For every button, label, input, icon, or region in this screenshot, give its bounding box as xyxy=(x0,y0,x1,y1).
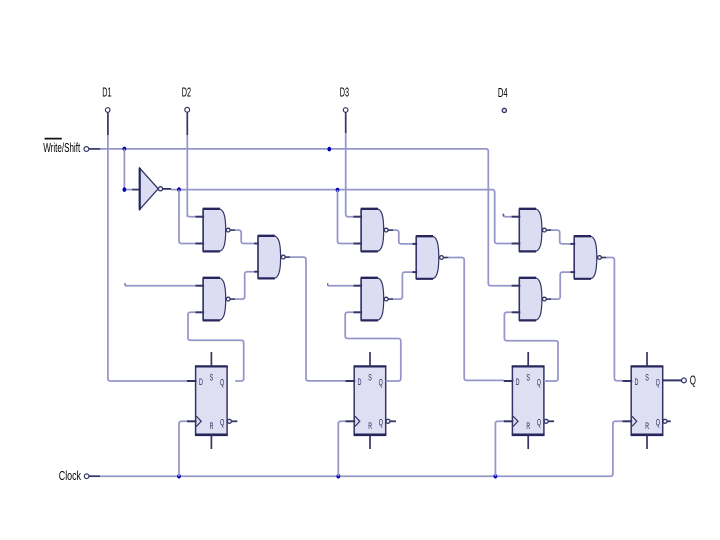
wire C2 output to FF3 D input xyxy=(448,258,503,381)
nand gate B1 xyxy=(195,278,235,321)
wire inverted shift bus to gate A3 bottom input xyxy=(171,190,511,244)
wire FF3 Q to B3 bottom input xyxy=(504,312,558,381)
wire inverted bus to gate A2 bottom input xyxy=(338,190,354,244)
wire B3 output to C3 bottom input xyxy=(551,272,570,299)
svg-text:Q: Q xyxy=(537,378,541,389)
nand gate C1 xyxy=(254,236,290,279)
svg-text:Q: Q xyxy=(656,378,660,389)
input pin D4 xyxy=(498,86,508,113)
wire Write/Shift to inverter input xyxy=(124,149,140,190)
junction clock at FF3 xyxy=(494,474,498,479)
svg-text:Q: Q xyxy=(379,378,383,389)
wire B1 output to C1 bottom input xyxy=(235,272,254,299)
wire C1 output to FF2 D input xyxy=(290,257,345,381)
svg-text:R: R xyxy=(645,421,649,432)
svg-text:R: R xyxy=(210,421,214,432)
wire clock to FF1 clock input xyxy=(179,421,187,476)
nand gate A2 xyxy=(353,209,393,252)
nand gate A1 xyxy=(195,209,235,252)
svg-text:S: S xyxy=(526,373,530,384)
inverter U1 xyxy=(140,168,172,210)
wire B1 top input from write line xyxy=(125,283,195,286)
junction clock at FF2 xyxy=(336,474,340,479)
svg-text:D: D xyxy=(516,377,520,388)
D flip-flop FF3 xyxy=(504,352,554,449)
svg-text:S: S xyxy=(645,373,649,384)
nand gate B3 xyxy=(512,278,552,321)
svg-text:Write/Shift: Write/Shift xyxy=(43,141,80,155)
nand gate C3 xyxy=(570,236,606,279)
wire C3 output to FF4 D input xyxy=(606,258,622,381)
input pin D1 xyxy=(102,86,111,135)
svg-text:Q: Q xyxy=(537,417,541,428)
wire FF1 Q to B1 bottom input xyxy=(188,312,244,381)
svg-text:S: S xyxy=(368,373,372,384)
wire D1 to FF1 D input xyxy=(108,135,187,381)
svg-text:Q: Q xyxy=(220,378,224,389)
svg-text:S: S xyxy=(210,373,214,384)
wire Write/Shift bus to gate B3 top input xyxy=(100,149,512,286)
port Write/Shift xyxy=(43,139,100,156)
svg-text:Q: Q xyxy=(690,374,696,388)
junction clock at FF1 xyxy=(177,474,181,479)
svg-text:R: R xyxy=(526,421,530,432)
wire FF2 Q to B2 bottom input xyxy=(345,312,401,381)
wire B2 top input from write line xyxy=(328,283,354,285)
nand gate B2 xyxy=(353,278,393,321)
wire stub D4 to gate A3 top input xyxy=(503,214,511,217)
port Clock xyxy=(59,469,100,483)
D flip-flop FF1 xyxy=(187,352,237,449)
wire B2 output to C2 bottom input xyxy=(393,272,412,299)
junction at inverter input xyxy=(123,187,127,192)
svg-text:D: D xyxy=(635,377,639,388)
wire clock to FF2 clock input xyxy=(338,421,345,476)
D flip-flop FF2 xyxy=(346,352,396,449)
wire D2 to gate A1 top input xyxy=(187,135,195,217)
nand gate A3 xyxy=(512,209,552,252)
junction inverted bus at gate A2 branch xyxy=(336,188,340,193)
wire A3 output to C3 top input xyxy=(551,230,570,244)
wire clock bus to FF4 clock input xyxy=(100,421,623,476)
svg-text:R: R xyxy=(368,421,372,432)
junction inverted bus at gate A1 branch xyxy=(177,187,181,192)
wire A1 output to C1 top input xyxy=(235,230,254,243)
junction on Write/Shift at D3 column xyxy=(327,147,331,152)
input pin D2 xyxy=(182,86,191,135)
svg-text:Clock: Clock xyxy=(59,469,82,483)
svg-text:Q: Q xyxy=(379,417,383,428)
wire clock to FF3 clock input xyxy=(495,421,503,476)
svg-text:Q: Q xyxy=(656,417,660,428)
svg-text:D4: D4 xyxy=(498,86,508,100)
wire D3 to gate A2 top input xyxy=(346,133,354,217)
svg-text:D2: D2 xyxy=(182,86,191,100)
svg-text:Q: Q xyxy=(220,417,224,428)
svg-text:D: D xyxy=(199,377,203,388)
wire inverted bus to gate A1 bottom input xyxy=(179,190,195,244)
input pin D3 xyxy=(340,86,349,133)
nand gate C2 xyxy=(412,236,448,279)
svg-text:D1: D1 xyxy=(102,86,111,100)
D flip-flop FF4 xyxy=(623,352,671,449)
output pin Q xyxy=(663,374,696,388)
svg-text:D: D xyxy=(358,377,362,388)
junction on Write/Shift at inverter branch xyxy=(123,147,127,152)
wire A2 output to C2 top input xyxy=(393,230,412,244)
svg-text:D3: D3 xyxy=(340,86,349,100)
